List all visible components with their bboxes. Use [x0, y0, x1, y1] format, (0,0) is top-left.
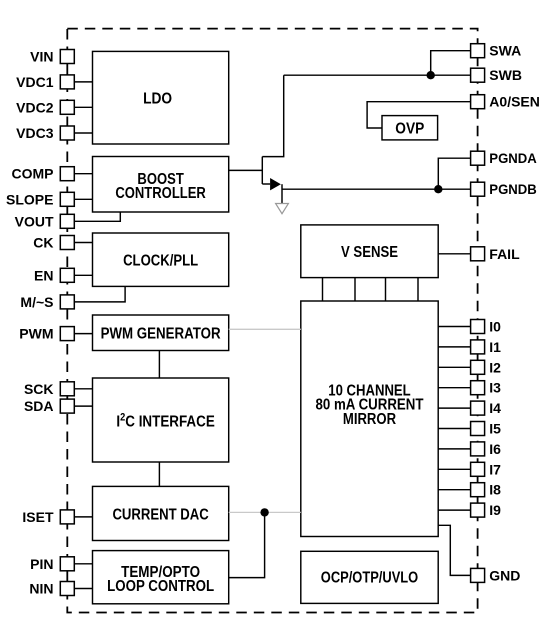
svg-text:SWA: SWA	[489, 43, 521, 59]
wire BOOST output to switch gate	[229, 169, 263, 171]
pin FAIL	[471, 246, 520, 262]
wire ISET pin to block	[74, 516, 92, 518]
pin I5	[471, 421, 502, 437]
wire mirror to I3 pin	[438, 387, 470, 389]
svg-text:I2C INTERFACE: I2C INTERFACE	[116, 412, 215, 431]
svg-text:PGNDA: PGNDA	[489, 150, 537, 166]
svg-text:M/~S: M/~S	[20, 294, 53, 310]
block TEMP/OPTO LOOP CONTROL	[93, 551, 229, 604]
svg-text:OVP: OVP	[395, 121, 424, 138]
wire VDC1 pin to block	[74, 81, 92, 83]
wire mirror to I6 pin	[438, 448, 470, 450]
pin PGNDA	[471, 150, 537, 166]
pin VOUT	[15, 213, 75, 229]
ground arrow (open triangle)	[276, 204, 289, 214]
block CLOCK/PLL	[93, 233, 229, 286]
IC boundary (dashed border)	[67, 29, 477, 613]
wire gate bar bottom stub	[262, 183, 270, 185]
svg-text:COMP: COMP	[12, 166, 54, 182]
pin PWM	[19, 326, 74, 342]
svg-text:SDA: SDA	[24, 398, 54, 414]
wire SWB net	[284, 74, 471, 76]
block OCP/OTP/UVLO	[301, 551, 438, 603]
svg-text:V SENSE: V SENSE	[341, 244, 398, 261]
svg-text:CONTROLLER: CONTROLLER	[115, 185, 206, 202]
wire EN pin to block	[74, 274, 92, 276]
svg-text:PIN: PIN	[30, 556, 53, 572]
pin CK	[33, 235, 74, 251]
pin GND	[471, 567, 521, 583]
block I2C INTERFACE	[93, 378, 229, 462]
pin I8	[471, 482, 502, 498]
svg-text:GND: GND	[489, 567, 520, 583]
svg-text:SLOPE: SLOPE	[6, 191, 53, 207]
pin NIN	[29, 581, 74, 597]
pin VIN	[30, 49, 74, 65]
junction dot DAC net	[260, 508, 268, 516]
svg-text:I5: I5	[489, 421, 501, 437]
pin PIN	[30, 556, 74, 572]
switch arrow (emitter)	[270, 178, 281, 190]
svg-text:I9: I9	[489, 502, 501, 518]
wire I2C INTERFACE to CURRENT DAC	[158, 462, 160, 486]
wire COMP pin to block	[74, 173, 92, 175]
wire V SENSE to mirror tick 4	[417, 278, 419, 301]
wire SCK pin to block	[74, 388, 92, 390]
svg-text:MIRROR: MIRROR	[343, 411, 397, 428]
pin I4	[471, 400, 502, 416]
pin VDC2	[16, 99, 74, 115]
svg-text:PGNDB: PGNDB	[489, 181, 537, 197]
svg-text:I6: I6	[489, 441, 501, 457]
block BOOST CONTROLLER	[93, 157, 229, 213]
pin VDC1	[16, 74, 74, 90]
wire DAC node to TEMP/OPTO block	[229, 512, 265, 577]
wire V SENSE to mirror tick 2	[354, 278, 356, 301]
wire V SENSE to FAIL pin	[438, 253, 470, 255]
pin COMP	[12, 166, 75, 182]
svg-text:I7: I7	[489, 461, 501, 477]
block 10 CHANNEL 80 mA CURRENT MIRROR	[301, 301, 438, 537]
pin M/~S	[20, 294, 74, 310]
wire SDA pin to block	[74, 405, 92, 407]
pin SDA	[24, 398, 74, 414]
wire emitter to ground arrow	[281, 184, 283, 204]
block OVP	[382, 116, 438, 140]
svg-text:VDC2: VDC2	[16, 99, 54, 115]
wire mirror to I8 pin	[438, 489, 470, 491]
wire A0/SEN net to OVP	[367, 102, 471, 128]
wire VOUT pin to BOOST CONTROLLER	[74, 212, 120, 221]
svg-text:EN: EN	[34, 267, 53, 283]
wire PWM GENERATOR to I2C INTERFACE	[158, 351, 160, 379]
switch gate bar	[261, 157, 263, 184]
block LDO	[93, 51, 229, 144]
wire SLOPE pin to block	[74, 198, 92, 200]
block V SENSE	[301, 225, 438, 278]
junction dot PGNDB node	[434, 185, 442, 193]
svg-text:LOOP CONTROL: LOOP CONTROL	[107, 578, 214, 595]
wire VDC2 pin to block	[74, 106, 92, 108]
svg-text:OCP/OTP/UVLO: OCP/OTP/UVLO	[321, 570, 418, 587]
svg-text:NIN: NIN	[29, 581, 53, 597]
svg-text:CURRENT DAC: CURRENT DAC	[112, 506, 209, 523]
svg-text:I8: I8	[489, 482, 501, 498]
pin I1	[471, 339, 502, 355]
junction dot SWB node	[427, 71, 435, 79]
wire mirror to I9 pin	[438, 509, 470, 511]
wire mirror to GND pin	[438, 525, 470, 575]
block PWM GENERATOR	[93, 315, 229, 351]
pin I0	[471, 319, 502, 335]
wire mirror to I2 pin	[438, 366, 470, 368]
svg-text:LDO: LDO	[143, 91, 172, 108]
wire mirror to I7 pin	[438, 468, 470, 470]
wire V SENSE to mirror tick 1	[322, 278, 324, 301]
wire PIN pin to block	[74, 563, 92, 565]
pin SWA	[471, 43, 522, 59]
pin ISET	[22, 509, 74, 525]
wire gate bar top to drain riser	[262, 75, 283, 156]
wire mirror to I5 pin	[438, 428, 470, 430]
wire mirror to I1 pin	[438, 346, 470, 348]
pin SCK	[24, 381, 74, 397]
svg-text:FAIL: FAIL	[489, 246, 520, 262]
svg-text:A0/SEN: A0/SEN	[489, 94, 540, 110]
pin I3	[471, 380, 502, 396]
svg-text:PWM GENERATOR: PWM GENERATOR	[101, 326, 221, 343]
svg-text:CLOCK/PLL: CLOCK/PLL	[123, 253, 198, 270]
svg-text:VIN: VIN	[30, 49, 53, 65]
pin SWB	[471, 67, 522, 83]
pin EN	[34, 267, 74, 283]
svg-text:I4: I4	[489, 400, 501, 416]
pin I7	[471, 461, 502, 477]
svg-text:PWM: PWM	[19, 326, 53, 342]
wire CURRENT DAC to current mirror (gray)	[229, 511, 301, 513]
svg-text:ISET: ISET	[22, 509, 54, 525]
wire SWB node to SWA pin	[431, 51, 471, 75]
svg-text:VDC1: VDC1	[16, 74, 54, 90]
svg-text:I2: I2	[489, 359, 501, 375]
svg-text:I1: I1	[489, 339, 501, 355]
svg-text:I3: I3	[489, 380, 501, 396]
wire NIN pin to block	[74, 588, 92, 590]
svg-text:VDC3: VDC3	[16, 125, 54, 141]
wire VDC3 pin to block	[74, 132, 92, 134]
pin I9	[471, 502, 502, 518]
wire V SENSE to mirror tick 3	[385, 278, 387, 301]
wire M/~S pin to CLOCK/PLL	[74, 286, 125, 302]
pin PGNDB	[471, 181, 537, 197]
wire PGNDB node to PGNDA pin	[438, 158, 470, 189]
wire CK pin to block	[74, 242, 92, 244]
block CURRENT DAC	[93, 486, 229, 540]
wire PGNDB net	[282, 188, 471, 190]
pin I6	[471, 441, 502, 457]
svg-text:I0: I0	[489, 319, 501, 335]
pin A0/SEN	[471, 94, 540, 110]
pin I2	[471, 359, 502, 375]
wire PWM pin to block	[74, 333, 92, 335]
wire mirror to I0 pin	[438, 326, 470, 328]
pin SLOPE	[6, 191, 74, 207]
svg-text:VOUT: VOUT	[15, 213, 54, 229]
svg-text:SWB: SWB	[489, 67, 522, 83]
wire PWM GENERATOR to current mirror (gray)	[229, 328, 301, 330]
svg-text:CK: CK	[33, 235, 53, 251]
wire mirror to I4 pin	[438, 407, 470, 409]
pin VDC3	[16, 125, 74, 141]
svg-text:SCK: SCK	[24, 381, 54, 397]
